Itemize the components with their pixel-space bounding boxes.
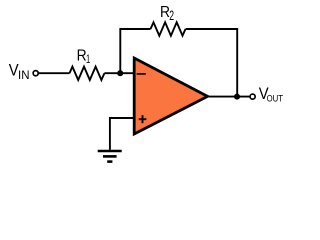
node A (inverting input junction) xyxy=(117,70,123,76)
resistor R2 xyxy=(151,22,186,35)
wire: node A up to feedback branch xyxy=(119,29,121,73)
op-amp U1 xyxy=(134,58,207,134)
wire: input terminal to R1 xyxy=(39,72,70,74)
output node xyxy=(234,94,240,100)
wire: ground up to non-inverting input xyxy=(110,118,135,150)
wire: R2 to feedback right corner xyxy=(186,28,239,30)
input terminal circle xyxy=(33,71,38,76)
wire: feedback right corner down to output node xyxy=(236,28,238,97)
svg-text:OUT: OUT xyxy=(267,94,284,104)
ground xyxy=(98,150,122,153)
output terminal circle xyxy=(250,94,255,99)
resistor R1 xyxy=(70,67,105,80)
wire: op-amp output to output terminal xyxy=(209,96,250,98)
wire: feedback top-left to R2 xyxy=(119,28,150,30)
svg-text:IN: IN xyxy=(18,70,30,82)
minus sign (inverting input) xyxy=(137,73,146,75)
svg-text:1: 1 xyxy=(86,52,90,66)
svg-text:2: 2 xyxy=(169,7,174,23)
plus sign (non-inverting input) xyxy=(139,118,147,120)
wire: R1 to inverting input xyxy=(104,72,135,74)
